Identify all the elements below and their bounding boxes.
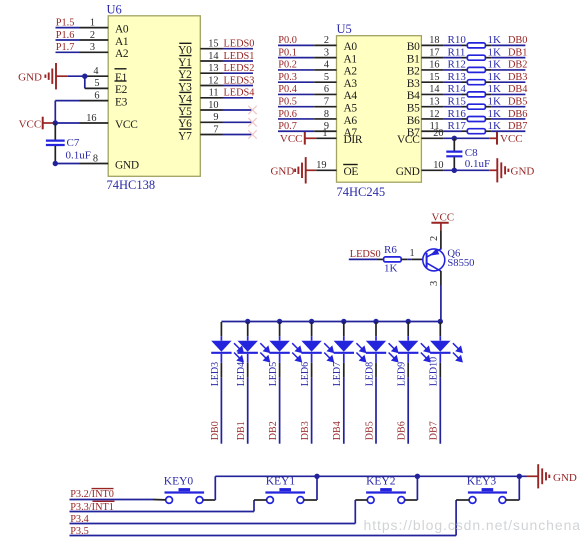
svg-text:19: 19 bbox=[316, 160, 326, 171]
net label DB6 below LED9 bbox=[397, 421, 408, 440]
node junction pin10 C8 bbox=[452, 168, 457, 173]
KEY2 designator bbox=[366, 476, 396, 488]
LED10 designator bbox=[429, 357, 440, 386]
svg-text:Y0: Y0 bbox=[178, 45, 192, 57]
net label DB1 bbox=[508, 47, 527, 58]
svg-text:A1: A1 bbox=[115, 36, 129, 48]
R16 designator bbox=[448, 108, 467, 120]
R17 value 1K bbox=[488, 120, 502, 132]
U6 part number 74HC138 bbox=[107, 178, 156, 192]
svg-text:5: 5 bbox=[94, 78, 99, 89]
svg-text:6: 6 bbox=[94, 90, 99, 101]
U5 part number 74HC245 bbox=[337, 185, 386, 199]
wire U5 pin 16 B2 to R12 bbox=[421, 60, 467, 71]
net label P0.1 bbox=[278, 47, 297, 58]
net label DB5 bbox=[508, 97, 527, 108]
svg-text:12: 12 bbox=[208, 75, 218, 86]
R10 value 1K bbox=[488, 34, 502, 46]
svg-text:DB1: DB1 bbox=[236, 421, 247, 440]
svg-text:U5: U5 bbox=[337, 22, 352, 36]
R14 value 1K bbox=[488, 83, 502, 95]
svg-text:R13: R13 bbox=[448, 71, 467, 83]
svg-text:3: 3 bbox=[324, 47, 329, 58]
svg-text:E1: E1 bbox=[115, 72, 128, 84]
svg-text:B5: B5 bbox=[407, 103, 420, 115]
svg-text:A0: A0 bbox=[115, 23, 129, 35]
svg-text:P0.7: P0.7 bbox=[278, 121, 297, 132]
wire U6 pin 6 E3 to VCC node bbox=[55, 90, 108, 123]
R15 value 1K bbox=[488, 96, 502, 108]
svg-text:16: 16 bbox=[429, 60, 439, 71]
ground GND left of U5 bbox=[270, 157, 305, 183]
resistor R6 1K bbox=[384, 257, 402, 262]
net label LEDS0 bbox=[224, 39, 255, 50]
svg-text:LEDS2: LEDS2 bbox=[224, 63, 255, 74]
wire U6 pin 9 Y6 bbox=[200, 112, 253, 123]
svg-text:LED7: LED7 bbox=[332, 362, 343, 386]
R12 designator bbox=[448, 59, 466, 71]
net label DB6 bbox=[508, 109, 527, 120]
svg-text:B0: B0 bbox=[407, 41, 420, 53]
svg-text:GND: GND bbox=[511, 165, 535, 177]
svg-text:R15: R15 bbox=[448, 96, 467, 108]
R14 designator bbox=[448, 83, 467, 95]
node junction bus LED4 bbox=[245, 319, 250, 324]
net label DB1 below LED4 bbox=[236, 421, 247, 440]
wire net P0.5 to U5 pin 7 bbox=[278, 97, 337, 108]
wire net P0.6 to U5 pin 8 bbox=[278, 109, 337, 120]
svg-text:1K: 1K bbox=[488, 46, 502, 58]
svg-text:74HC138: 74HC138 bbox=[107, 178, 156, 192]
power VCC above Q6 bbox=[431, 211, 454, 230]
svg-text:1K: 1K bbox=[488, 71, 502, 83]
wire U6 pin 11 Y4 bbox=[200, 88, 253, 99]
svg-text:DIR: DIR bbox=[344, 134, 363, 146]
svg-text:3: 3 bbox=[90, 42, 95, 53]
op-amp U5 74HC245 body bbox=[337, 36, 422, 183]
wire net P0.2 to U5 pin 4 bbox=[278, 60, 337, 71]
svg-text:GND: GND bbox=[270, 165, 294, 177]
R16 value 1K bbox=[488, 108, 502, 120]
R10 designator bbox=[448, 34, 467, 46]
LED6 bbox=[301, 322, 333, 444]
LED8 bbox=[366, 322, 398, 444]
net label DB3 below LED6 bbox=[300, 421, 311, 440]
wire net P0.4 to U5 pin 6 bbox=[278, 84, 337, 95]
svg-text:DB4: DB4 bbox=[508, 84, 527, 95]
svg-text:15: 15 bbox=[429, 72, 439, 83]
svg-text:R10: R10 bbox=[448, 34, 467, 46]
net label DB4 bbox=[508, 84, 527, 95]
net label DB2 below LED5 bbox=[268, 421, 279, 440]
wire LEDS0 to R6 bbox=[349, 258, 384, 260]
resistor R15 1K bbox=[467, 104, 485, 109]
wire U5 pin 14 B4 to R14 bbox=[421, 84, 467, 95]
wire R11 to net DB1 bbox=[485, 57, 525, 59]
svg-text:LED3: LED3 bbox=[210, 362, 221, 386]
wire U5 pin 10 to GND bbox=[421, 160, 497, 171]
wire U6 pin 15 Y0 bbox=[200, 39, 253, 50]
LED7 designator bbox=[332, 362, 343, 386]
net label DB2 bbox=[508, 60, 527, 71]
wire P3.4 to KEY2 bbox=[70, 500, 368, 524]
R17 designator bbox=[448, 120, 467, 132]
svg-text:6: 6 bbox=[324, 84, 329, 95]
net label LEDS1 bbox=[224, 51, 255, 62]
wire U5 pin 15 B3 to R13 bbox=[421, 72, 467, 83]
svg-text:R12: R12 bbox=[448, 59, 466, 71]
svg-text:A4: A4 bbox=[344, 90, 358, 102]
svg-text:P0.6: P0.6 bbox=[278, 109, 297, 120]
wire KEY0 to ground rail bbox=[203, 476, 215, 500]
capacitor C7 bbox=[46, 123, 65, 164]
LED5 bbox=[269, 322, 301, 444]
node junction bus LED6 bbox=[309, 319, 314, 324]
net label LEDS2 bbox=[224, 63, 255, 74]
svg-text:VCC: VCC bbox=[397, 134, 420, 146]
svg-text:1: 1 bbox=[409, 248, 414, 259]
net label DB7 bbox=[508, 121, 527, 132]
wire Q6 collector pin 3 to LED bus bbox=[429, 271, 441, 322]
svg-text:DB2: DB2 bbox=[508, 60, 527, 71]
wire R6 to Q6 base pin 1 bbox=[401, 248, 426, 259]
svg-text:B3: B3 bbox=[407, 78, 420, 90]
svg-text:P0.4: P0.4 bbox=[278, 84, 297, 95]
resistor R14 1K bbox=[467, 92, 485, 97]
resistor R16 1K bbox=[467, 117, 485, 122]
R6 designator bbox=[384, 244, 397, 256]
capacitor C8 bbox=[446, 138, 462, 170]
svg-text:E2: E2 bbox=[115, 84, 128, 96]
svg-text:LED9: LED9 bbox=[397, 362, 408, 386]
svg-text:B4: B4 bbox=[407, 90, 420, 102]
svg-text:P1.7: P1.7 bbox=[56, 42, 75, 53]
svg-text:U6: U6 bbox=[107, 3, 122, 17]
wire U6 pin 10 Y5 bbox=[200, 100, 253, 111]
svg-text:A2: A2 bbox=[344, 66, 358, 78]
net label P0.7 bbox=[278, 121, 297, 132]
net label DB0 below LED3 bbox=[210, 421, 221, 440]
resistor R12 1K bbox=[467, 67, 485, 72]
LED7 bbox=[334, 322, 366, 444]
svg-text:10: 10 bbox=[208, 100, 218, 111]
svg-text:KEY2: KEY2 bbox=[366, 476, 396, 488]
resistor R11 1K bbox=[467, 55, 485, 60]
svg-text:LEDS3: LEDS3 bbox=[224, 75, 255, 86]
wire net P0.0 to U5 pin 2 bbox=[278, 35, 337, 46]
node junction rail KEY2 bbox=[415, 474, 420, 479]
svg-text:10: 10 bbox=[433, 160, 443, 171]
wire net P1.5 to U6 pin 1 bbox=[56, 17, 109, 28]
wire ground rail bbox=[215, 475, 537, 477]
LED8 designator bbox=[364, 362, 375, 386]
net label P0.2 bbox=[278, 60, 297, 71]
svg-text:VCC: VCC bbox=[115, 119, 138, 131]
LED4 bbox=[238, 322, 270, 444]
svg-text:1K: 1K bbox=[488, 59, 502, 71]
wire P3.3 to KEY1 bbox=[70, 500, 267, 512]
LED3 designator bbox=[210, 362, 221, 386]
svg-text:8: 8 bbox=[93, 153, 98, 164]
svg-text:3: 3 bbox=[429, 281, 440, 286]
svg-text:4: 4 bbox=[324, 60, 329, 71]
wire KEY1 to rail bbox=[304, 476, 317, 500]
svg-text:17: 17 bbox=[429, 47, 439, 58]
svg-text:P3.2/INT0: P3.2/INT0 bbox=[70, 489, 114, 500]
svg-text:1K: 1K bbox=[488, 34, 502, 46]
C7 designator bbox=[67, 137, 80, 149]
svg-text:Y1: Y1 bbox=[178, 57, 192, 69]
svg-text:7: 7 bbox=[324, 97, 329, 108]
op-amp U6 74HC138 body bbox=[108, 16, 200, 177]
svg-text:Y2: Y2 bbox=[178, 69, 192, 81]
svg-text:KEY3: KEY3 bbox=[467, 476, 497, 488]
node junction C7 GND pin8 bbox=[53, 161, 58, 166]
power VCC left of U6 bbox=[19, 117, 43, 131]
U5 pin names bbox=[343, 41, 420, 178]
switch KEY1 bbox=[265, 488, 305, 503]
net label LEDS3 bbox=[224, 75, 255, 86]
wire U6 pin 14 Y1 bbox=[200, 51, 253, 62]
svg-text:1K: 1K bbox=[488, 120, 502, 132]
wire U5 pin 13 B5 to R15 bbox=[421, 97, 467, 108]
svg-text:13: 13 bbox=[429, 97, 439, 108]
svg-text:S8550: S8550 bbox=[447, 258, 474, 269]
resistor R13 1K bbox=[467, 80, 485, 85]
net label DB5 below LED8 bbox=[364, 421, 375, 440]
watermark bbox=[364, 517, 582, 533]
svg-text:8: 8 bbox=[324, 109, 329, 120]
node junction bus LED8 bbox=[373, 319, 378, 324]
R11 value 1K bbox=[488, 46, 502, 58]
node junction bus LED10 bbox=[438, 319, 443, 324]
wire U6 pin 7 Y7 bbox=[200, 124, 253, 135]
svg-text:2: 2 bbox=[324, 35, 329, 46]
svg-text:0.1uF: 0.1uF bbox=[465, 158, 490, 170]
svg-text:DB7: DB7 bbox=[429, 421, 440, 440]
svg-text:P1.6: P1.6 bbox=[56, 30, 75, 41]
net label P1.5 bbox=[56, 17, 75, 28]
svg-text:GND: GND bbox=[553, 472, 577, 484]
wire R14 to net DB4 bbox=[485, 93, 525, 95]
net label DB3 bbox=[508, 72, 527, 83]
wire GND to U5 pin 19 OE bbox=[306, 160, 337, 171]
net label P3.4 bbox=[70, 514, 89, 525]
Q6 part S8550 bbox=[447, 258, 474, 269]
switch KEY3 bbox=[468, 488, 507, 503]
resistor R10 1K bbox=[467, 43, 485, 48]
wire U5 pin 18 B0 to R10 bbox=[421, 35, 467, 46]
svg-text:1: 1 bbox=[322, 128, 327, 139]
svg-text:VCC: VCC bbox=[19, 118, 42, 130]
LED9 bbox=[398, 322, 430, 444]
C7 value 0.1uF bbox=[66, 150, 91, 162]
wire U6 pin 12 Y3 bbox=[200, 75, 253, 86]
svg-text:13: 13 bbox=[208, 63, 218, 74]
svg-text:GND: GND bbox=[396, 166, 420, 178]
ground GND right of U5 bbox=[497, 158, 534, 182]
svg-text:B1: B1 bbox=[407, 53, 420, 65]
svg-text:R6: R6 bbox=[384, 244, 397, 256]
node junction VCC C7 bbox=[53, 120, 58, 125]
svg-text:A3: A3 bbox=[344, 78, 358, 90]
svg-text:KEY1: KEY1 bbox=[266, 476, 296, 488]
svg-text:2: 2 bbox=[90, 30, 95, 41]
wire R12 to net DB2 bbox=[485, 69, 525, 71]
svg-text:OE: OE bbox=[344, 166, 359, 178]
wire R10 to net DB0 bbox=[485, 44, 525, 46]
svg-text:A1: A1 bbox=[344, 53, 358, 65]
svg-text:DB0: DB0 bbox=[508, 35, 527, 46]
svg-text:LEDS0: LEDS0 bbox=[224, 39, 255, 50]
KEY3 designator bbox=[467, 476, 497, 488]
resistor R17 1K bbox=[467, 129, 485, 134]
wire net P0.1 to U5 pin 3 bbox=[278, 47, 337, 58]
node junction pin4 bbox=[82, 74, 87, 79]
R11 designator bbox=[448, 46, 466, 58]
net label P0.0 bbox=[278, 35, 297, 46]
wire U6 pin 13 Y2 bbox=[200, 63, 253, 74]
transistor Q6 S8550 bbox=[423, 249, 445, 272]
svg-text:VCC: VCC bbox=[432, 211, 455, 223]
no-ERC cross on U6 pin 7 bbox=[248, 130, 256, 138]
wire U5 pin 17 B1 to R11 bbox=[421, 47, 467, 58]
svg-text:DB0: DB0 bbox=[210, 421, 221, 440]
svg-text:DB3: DB3 bbox=[300, 421, 311, 440]
svg-text:14: 14 bbox=[429, 84, 439, 95]
svg-text:P0.0: P0.0 bbox=[278, 35, 297, 46]
wire LED anode bus bbox=[221, 321, 440, 323]
svg-text:R17: R17 bbox=[448, 120, 467, 132]
svg-text:R16: R16 bbox=[448, 108, 467, 120]
svg-text:P0.5: P0.5 bbox=[278, 97, 297, 108]
wire net P1.6 to U6 pin 2 bbox=[56, 30, 109, 41]
svg-text:DB1: DB1 bbox=[508, 47, 527, 58]
U5 designator bbox=[337, 22, 352, 36]
svg-text:4: 4 bbox=[93, 66, 98, 77]
svg-text:1K: 1K bbox=[384, 262, 398, 274]
svg-text:GND: GND bbox=[18, 72, 42, 84]
net label P0.5 bbox=[278, 97, 297, 108]
net label P3.3/INT1 bbox=[70, 501, 114, 513]
LED3 bbox=[211, 322, 243, 444]
no-ERC cross on U6 pin 10 bbox=[248, 106, 256, 114]
svg-text:20: 20 bbox=[433, 128, 443, 139]
wire R13 to net DB3 bbox=[485, 81, 525, 83]
wire U5 pin 12 B6 to R16 bbox=[421, 109, 467, 120]
net label P3.5 bbox=[70, 526, 89, 537]
LED10 bbox=[430, 322, 462, 444]
svg-text:P0.2: P0.2 bbox=[278, 60, 297, 71]
net label P3.2/INT0 bbox=[70, 489, 114, 500]
svg-text:DB2: DB2 bbox=[268, 421, 279, 440]
svg-text:Y3: Y3 bbox=[178, 81, 192, 93]
wire VCC to U6 pin 16 bbox=[43, 113, 109, 124]
U6 pin names bbox=[115, 23, 193, 171]
svg-text:LED8: LED8 bbox=[364, 362, 375, 386]
wire U5 pin 11 B7 to R17 bbox=[421, 121, 467, 132]
KEY0 designator bbox=[164, 476, 194, 488]
svg-text:16: 16 bbox=[86, 113, 96, 124]
net label P0.6 bbox=[278, 109, 297, 120]
svg-text:14: 14 bbox=[208, 51, 218, 62]
wire U6 pin 5 to junction bbox=[85, 76, 108, 89]
wire U5 pin 20 to VCC bbox=[421, 128, 497, 139]
wire VCC to Q6 emitter pin 2 bbox=[429, 230, 441, 249]
svg-text:DB6: DB6 bbox=[508, 109, 527, 120]
svg-text:A6: A6 bbox=[344, 115, 358, 127]
svg-text:5: 5 bbox=[324, 72, 329, 83]
svg-text:A5: A5 bbox=[344, 103, 358, 115]
node junction rail KEY3 bbox=[517, 474, 522, 479]
wire P3.2 to KEY0 bbox=[70, 499, 166, 501]
R13 designator bbox=[448, 71, 467, 83]
net label P1.6 bbox=[56, 30, 75, 41]
svg-text:P0.3: P0.3 bbox=[278, 72, 297, 83]
svg-text:DB3: DB3 bbox=[508, 72, 527, 83]
net label DB4 below LED7 bbox=[332, 421, 343, 440]
switch KEY0 bbox=[165, 488, 205, 503]
switch KEY2 bbox=[366, 488, 406, 503]
KEY1 designator bbox=[266, 476, 296, 488]
svg-text:DB5: DB5 bbox=[508, 97, 527, 108]
svg-text:1K: 1K bbox=[488, 83, 502, 95]
wire net P1.7 to U6 pin 3 bbox=[56, 42, 109, 53]
svg-text:C7: C7 bbox=[67, 137, 80, 149]
wire KEY3 to rail bbox=[506, 476, 520, 500]
node junction bus LED7 bbox=[341, 319, 346, 324]
wire P3.5 to KEY3 bbox=[70, 500, 470, 536]
svg-text:LED6: LED6 bbox=[300, 362, 311, 386]
net label P0.4 bbox=[278, 84, 297, 95]
svg-text:1K: 1K bbox=[488, 108, 502, 120]
svg-text:LED10: LED10 bbox=[429, 357, 440, 386]
LED4 designator bbox=[236, 362, 247, 386]
svg-text:R14: R14 bbox=[448, 83, 467, 95]
net label LEDS0 at R6 bbox=[350, 249, 381, 260]
svg-text:P0.1: P0.1 bbox=[278, 47, 297, 58]
svg-text:B2: B2 bbox=[407, 66, 420, 78]
R12 value 1K bbox=[488, 59, 502, 71]
svg-text:E3: E3 bbox=[115, 96, 128, 108]
node junction rail KEY1 bbox=[314, 474, 319, 479]
svg-text:1K: 1K bbox=[488, 96, 502, 108]
wire R15 to net DB5 bbox=[485, 106, 525, 108]
svg-text:1: 1 bbox=[90, 17, 95, 28]
svg-text:https://blog.csdn.net/sunchena: https://blog.csdn.net/sunchena bbox=[364, 517, 582, 533]
svg-text:DB7: DB7 bbox=[508, 121, 527, 132]
svg-text:7: 7 bbox=[213, 124, 218, 135]
LED5 designator bbox=[268, 362, 279, 386]
svg-text:DB6: DB6 bbox=[397, 421, 408, 440]
R13 value 1K bbox=[488, 71, 502, 83]
node junction pin20 C8 bbox=[452, 136, 457, 141]
wire VCC to U5 pin 1 DIR bbox=[305, 128, 337, 139]
svg-text:VCC: VCC bbox=[500, 133, 523, 145]
svg-text:15: 15 bbox=[208, 39, 218, 50]
svg-text:KEY0: KEY0 bbox=[164, 476, 194, 488]
svg-text:Y6: Y6 bbox=[178, 118, 192, 130]
wire C7 to U6 pin 8 bbox=[55, 153, 108, 164]
svg-text:LED5: LED5 bbox=[268, 362, 279, 386]
power VCC right of U5 bbox=[497, 132, 523, 145]
wire R16 to net DB6 bbox=[485, 118, 525, 120]
net label LEDS4 bbox=[224, 88, 255, 99]
LED9 designator bbox=[397, 362, 408, 386]
Q6 designator bbox=[447, 248, 460, 259]
C8 designator bbox=[465, 147, 478, 159]
svg-text:Y5: Y5 bbox=[178, 106, 192, 118]
